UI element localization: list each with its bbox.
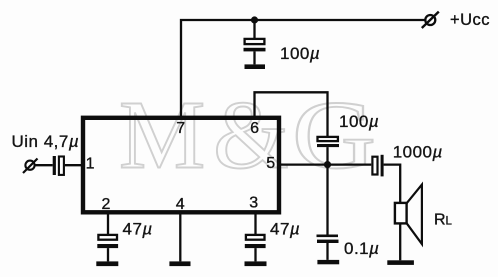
wire pin5 to C4 [278,163,371,165]
svg-text:R: R [434,212,446,229]
wire C1 to pin1 [65,164,83,166]
svg-text:0.1µ: 0.1µ [344,239,379,258]
wire pin3 to C7 [254,211,256,235]
svg-text:Uin 4,7µ: Uin 4,7µ [12,132,80,151]
wire C3 to output node [326,147,328,165]
ground C2 [245,64,266,69]
svg-text:5: 5 [266,155,275,172]
capacitor C6 47µ [97,235,118,248]
wire C2 to ground [253,51,255,64]
terminal +Ucc [422,12,439,28]
watermark M&G [119,82,386,190]
wire pin7 to +Ucc rail [181,20,425,117]
svg-text:1000µ: 1000µ [393,143,443,162]
wire input to C1 [34,164,53,166]
capacitor C5 0.1µ [317,235,339,244]
ground speaker [387,260,414,265]
capacitor C1 4,7µ [53,156,64,175]
svg-text:4: 4 [176,196,185,213]
ground pin4 [169,261,190,266]
node Vcc rail junction [251,16,258,23]
ground C7 [245,261,267,266]
svg-text:7: 7 [176,120,185,137]
svg-text:47µ: 47µ [270,220,300,239]
capacitor C4 1000µ [372,155,383,177]
op-amp IC U1 [83,118,279,213]
wire C7 to ground [254,248,256,261]
ground C5 [317,260,339,264]
wire junction to C2 [253,20,255,39]
svg-text:3: 3 [249,195,258,212]
svg-text:100µ: 100µ [339,112,379,131]
terminal input [23,159,38,174]
svg-text:100µ: 100µ [280,44,320,63]
wire C6 to ground [107,248,109,261]
speaker RL [395,185,422,244]
node output junction [324,161,331,168]
wire output node to C5 [326,165,328,235]
capacitor C7 47µ [245,235,266,248]
capacitor C3 100µ [317,137,339,147]
ground C6 [96,261,118,266]
svg-text:1: 1 [86,155,95,172]
wire pin2 to C6 [107,211,109,235]
svg-text:47µ: 47µ [123,220,153,239]
svg-text:6: 6 [250,120,259,137]
capacitor C2 100µ [244,39,266,51]
wire pin6 to C3 [255,92,328,137]
svg-text:L: L [446,216,453,228]
svg-text:2: 2 [101,196,110,213]
wire C5 to ground [326,243,328,260]
wire C4 to speaker [384,165,401,203]
wire speaker to ground [399,223,401,260]
svg-text:M&: M& [119,82,297,189]
wire pin4 to ground [179,211,181,261]
svg-text:+Ucc: +Ucc [450,11,490,29]
